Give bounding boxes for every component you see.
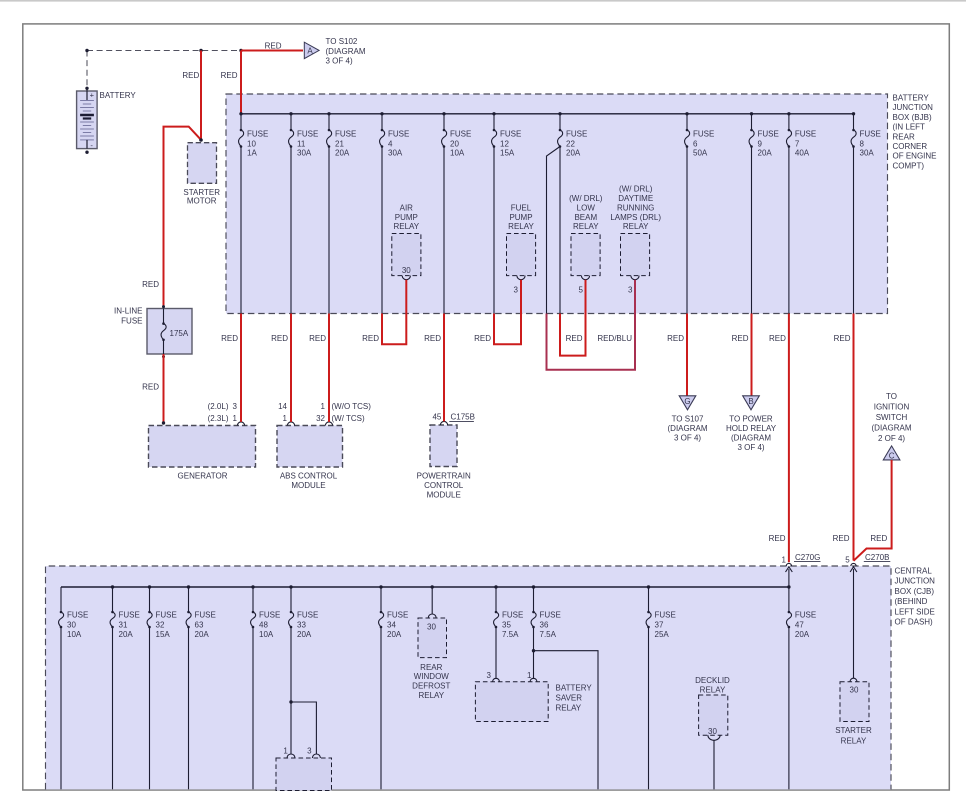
svg-text:14: 14 <box>278 402 287 411</box>
generator pin arc <box>237 422 244 426</box>
svg-text:RED: RED <box>221 71 238 80</box>
svg-text:15A: 15A <box>500 149 515 158</box>
node bus tap fuse 31 <box>111 585 114 588</box>
svg-text:7.5A: 7.5A <box>502 630 519 639</box>
wire RED fuse 12 to fuel pump relay 3 <box>494 280 521 345</box>
svg-text:37: 37 <box>655 620 664 629</box>
svg-text:POWERTRAIN: POWERTRAIN <box>417 471 471 480</box>
off-page connector A to S102 <box>304 42 319 58</box>
wire fuse 35 to battery saver relay 3 <box>495 627 497 679</box>
svg-text:RED: RED <box>732 334 749 343</box>
svg-text:1: 1 <box>527 671 532 680</box>
svg-text:CENTRAL: CENTRAL <box>895 567 933 576</box>
svg-text:RELAY: RELAY <box>700 685 726 694</box>
svg-text:G: G <box>684 397 690 406</box>
wire fuse drop <box>240 147 242 314</box>
node bus tap fuse 9 <box>750 112 753 115</box>
wire fuse drop <box>686 147 688 314</box>
fuse 21 20A <box>327 129 357 158</box>
svg-text:(DIAGRAM: (DIAGRAM <box>731 433 771 442</box>
wire fuse drop <box>252 627 254 789</box>
off-page connector B to power hold relay <box>743 396 760 410</box>
svg-text:FUSE: FUSE <box>297 130 318 139</box>
node bus tap fuse 20 <box>442 112 445 115</box>
svg-text:20A: 20A <box>297 630 312 639</box>
svg-text:TO: TO <box>886 392 897 401</box>
fuse 22 20A <box>558 129 588 158</box>
ABS pin 1/32 arc <box>325 422 332 426</box>
svg-text:48: 48 <box>259 620 268 629</box>
node bus tap fuse 11 <box>289 112 292 115</box>
svg-text:RELAY: RELAY <box>573 222 599 231</box>
svg-text:RELAY: RELAY <box>841 736 867 745</box>
svg-text:RED: RED <box>182 71 199 80</box>
svg-text:LAMPS (DRL): LAMPS (DRL) <box>610 213 661 222</box>
wire RED feed into BJB <box>240 51 242 114</box>
svg-text:COMPT): COMPT) <box>893 161 925 170</box>
wire C270G to CJB bus <box>788 569 790 587</box>
svg-text:CONTROL: CONTROL <box>424 481 464 490</box>
node bus tap fuse 8 <box>852 112 855 115</box>
node starter tap <box>199 49 202 52</box>
svg-text:BATTERY: BATTERY <box>100 91 137 100</box>
svg-text:OF DASH): OF DASH) <box>895 618 934 627</box>
svg-text:RELAY: RELAY <box>556 703 582 712</box>
svg-text:20: 20 <box>450 139 459 148</box>
svg-text:12: 12 <box>500 139 509 148</box>
svg-text:FUSE: FUSE <box>795 611 816 620</box>
svg-text:IN-LINE: IN-LINE <box>114 307 142 316</box>
svg-text:3 OF 4): 3 OF 4) <box>326 57 353 66</box>
svg-text:3: 3 <box>307 746 312 755</box>
fuse 34 20A <box>379 611 409 639</box>
svg-text:MOTOR: MOTOR <box>187 196 217 205</box>
fuse 10 1A <box>239 129 269 158</box>
svg-text:FUSE: FUSE <box>335 130 356 139</box>
wire RED fuse 22 to low beam relay 5 <box>560 280 586 356</box>
svg-text:3 OF 4): 3 OF 4) <box>674 433 701 442</box>
node bus tap fuse 21 <box>327 112 330 115</box>
svg-text:30A: 30A <box>297 149 312 158</box>
svg-text:4: 4 <box>388 139 393 148</box>
rear window defrost relay <box>431 587 433 614</box>
svg-text:30A: 30A <box>388 149 403 158</box>
svg-text:20A: 20A <box>195 630 210 639</box>
svg-text:(DIAGRAM: (DIAGRAM <box>326 47 366 56</box>
battery junction box BJB <box>226 94 888 314</box>
wire fuse drop <box>188 627 190 789</box>
svg-text:8: 8 <box>860 139 865 148</box>
svg-text:3: 3 <box>514 286 519 295</box>
svg-text:20A: 20A <box>119 630 134 639</box>
svg-text:21: 21 <box>335 139 344 148</box>
svg-text:MODULE: MODULE <box>427 491 461 500</box>
svg-text:+: + <box>90 91 95 100</box>
node bus tap fuse 6 <box>685 112 688 115</box>
node bus tap fuse 63 <box>187 585 190 588</box>
svg-text:A: A <box>307 46 313 55</box>
svg-text:34: 34 <box>387 620 396 629</box>
wire fuse 36 to battery saver relay 1 and branch <box>533 627 535 679</box>
svg-text:31: 31 <box>119 620 128 629</box>
node bus tap fuse 37 <box>647 585 650 588</box>
svg-text:C270G: C270G <box>795 553 820 562</box>
svg-text:36: 36 <box>540 620 549 629</box>
wire RED fuse 21 to ABS <box>328 314 330 422</box>
fuse 32 15A <box>147 611 177 639</box>
central junction box CJB <box>46 566 892 789</box>
fuse 33 20A <box>289 611 319 639</box>
wire dashed battery bus <box>87 50 241 52</box>
svg-text:30: 30 <box>427 623 436 632</box>
wire fuse drop <box>788 627 790 789</box>
wire RED fuse 11 to ABS <box>290 314 292 422</box>
node bus / C270G junction <box>787 585 790 588</box>
svg-text:63: 63 <box>195 620 204 629</box>
svg-text:IGNITION: IGNITION <box>874 402 910 411</box>
wire RED fuse 7 to CJB C270G <box>788 314 790 563</box>
fuse 12 15A <box>492 129 522 158</box>
svg-text:(2.3L): (2.3L) <box>208 414 229 423</box>
battery saver relay <box>475 682 548 722</box>
svg-text:BATTERY: BATTERY <box>556 683 593 692</box>
svg-text:RED: RED <box>566 334 583 343</box>
svg-text:FUSE: FUSE <box>502 611 523 620</box>
wire fuse drop <box>381 147 383 314</box>
svg-text:DECKLID: DECKLID <box>695 676 730 685</box>
svg-text:10A: 10A <box>450 149 465 158</box>
svg-text:RED: RED <box>221 334 238 343</box>
svg-text:7: 7 <box>795 139 800 148</box>
svg-text:JUNCTION: JUNCTION <box>893 103 934 112</box>
node fuse 36 branch <box>532 649 535 652</box>
svg-text:FUSE: FUSE <box>247 130 268 139</box>
svg-text:3: 3 <box>628 286 633 295</box>
wire fuse drop <box>290 147 292 314</box>
node BJB feed tap <box>239 49 242 52</box>
fuse 6 50A <box>685 129 715 158</box>
svg-text:RED: RED <box>833 534 850 543</box>
wire RED fuse 20 to PCM <box>443 314 445 422</box>
fuse 20 10A <box>442 129 472 158</box>
wire fuse 33 to relay pins <box>290 627 292 754</box>
svg-text:SAVER: SAVER <box>556 693 583 702</box>
svg-text:RED/BLU: RED/BLU <box>597 334 632 343</box>
node fuse 33 branch <box>289 700 292 703</box>
svg-text:40A: 40A <box>795 149 810 158</box>
wire RED ignition switch to C270B <box>854 460 892 561</box>
wire fuse drop <box>112 627 114 789</box>
wire RED starter tap to in-line fuse <box>164 127 202 309</box>
svg-text:RED: RED <box>667 334 684 343</box>
node generator terminal <box>162 421 165 424</box>
fuse 9 20A <box>749 129 779 158</box>
svg-text:(W/ DRL): (W/ DRL) <box>619 185 653 194</box>
node bus tap fuse 4 <box>380 112 383 115</box>
svg-text:1: 1 <box>321 402 326 411</box>
svg-text:45: 45 <box>432 413 441 422</box>
svg-text:33: 33 <box>297 620 306 629</box>
svg-text:50A: 50A <box>693 149 708 158</box>
svg-text:3 OF 4): 3 OF 4) <box>737 443 764 452</box>
node bus tap fuse 33 <box>289 585 292 588</box>
wire fuse drop <box>559 147 561 314</box>
svg-text:11: 11 <box>297 139 306 148</box>
svg-text:AIR: AIR <box>400 203 414 212</box>
svg-text:1: 1 <box>782 555 787 564</box>
svg-text:30A: 30A <box>860 149 875 158</box>
fuse 37 25A <box>646 611 676 639</box>
starter relay <box>840 682 869 722</box>
svg-text:FUSE: FUSE <box>450 130 471 139</box>
svg-text:25A: 25A <box>655 630 670 639</box>
svg-text:TO POWER: TO POWER <box>729 414 773 423</box>
svg-text:RED: RED <box>265 41 282 50</box>
wire fuse drop <box>853 147 855 314</box>
svg-text:RED: RED <box>271 334 288 343</box>
svg-text:REAR: REAR <box>893 132 915 141</box>
svg-text:CORNER: CORNER <box>893 142 928 151</box>
svg-text:RELAY: RELAY <box>623 222 649 231</box>
svg-text:LOW: LOW <box>577 203 596 212</box>
svg-text:(W/O TCS): (W/O TCS) <box>332 402 372 411</box>
svg-text:(DIAGRAM: (DIAGRAM <box>668 424 708 433</box>
wire fuse drop <box>443 147 445 314</box>
svg-text:FUSE: FUSE <box>655 611 676 620</box>
fuse 31 20A <box>110 611 140 639</box>
svg-text:BATTERY: BATTERY <box>893 94 930 103</box>
node bus tap fuse 22 <box>558 112 561 115</box>
svg-text:FUSE: FUSE <box>566 130 587 139</box>
svg-text:C270B: C270B <box>865 553 889 562</box>
node bus tap fuse 7 <box>787 112 790 115</box>
svg-text:20A: 20A <box>566 149 581 158</box>
svg-text:FUSE: FUSE <box>860 130 881 139</box>
svg-text:FUEL: FUEL <box>511 203 532 212</box>
svg-text:BOX (BJB): BOX (BJB) <box>893 113 932 122</box>
svg-text:RED: RED <box>769 534 786 543</box>
svg-text:FUSE: FUSE <box>500 130 521 139</box>
node bus tap fuse 10 <box>239 112 242 115</box>
svg-text:JUNCTION: JUNCTION <box>895 577 936 586</box>
svg-text:(DIAGRAM: (DIAGRAM <box>872 423 912 432</box>
svg-text:5: 5 <box>845 555 850 564</box>
PCM pin 45 connector C175B <box>440 421 447 425</box>
wire RED fuse 4 to air pump relay 30 <box>382 280 406 345</box>
svg-text:RED: RED <box>769 334 786 343</box>
svg-text:HOLD RELAY: HOLD RELAY <box>726 424 777 433</box>
svg-text:PUMP: PUMP <box>395 213 418 222</box>
battery B1 <box>77 87 98 154</box>
svg-text:32: 32 <box>316 414 325 423</box>
wire RED fuse 6 to S107 <box>686 314 688 396</box>
generator <box>149 426 256 468</box>
svg-text:RED: RED <box>474 334 491 343</box>
wire C270B to starter relay <box>853 569 855 679</box>
fuse 63 20A <box>186 611 216 639</box>
fuse 11 30A <box>289 129 319 158</box>
svg-text:GENERATOR: GENERATOR <box>178 471 228 480</box>
off-page connector G to S107 <box>679 396 696 410</box>
svg-text:20A: 20A <box>758 149 773 158</box>
svg-text:10: 10 <box>247 139 256 148</box>
svg-text:20A: 20A <box>335 149 350 158</box>
svg-text:FUSE: FUSE <box>67 611 88 620</box>
svg-text:(W/ DRL): (W/ DRL) <box>569 194 603 203</box>
svg-text:PUMP: PUMP <box>509 213 532 222</box>
node bus tap fuse 36 <box>532 585 535 588</box>
node bus tap defrost relay <box>431 585 434 588</box>
wire fuse drop <box>60 627 62 789</box>
svg-text:FUSE: FUSE <box>693 130 714 139</box>
svg-text:RED: RED <box>834 334 851 343</box>
svg-text:20A: 20A <box>387 630 402 639</box>
svg-text:20A: 20A <box>795 630 810 639</box>
svg-text:FUSE: FUSE <box>795 130 816 139</box>
svg-text:3: 3 <box>233 402 238 411</box>
svg-text:STARTER: STARTER <box>835 726 872 735</box>
svg-text:RUNNING: RUNNING <box>617 203 654 212</box>
fuse 35 7.5A <box>494 611 524 639</box>
svg-text:47: 47 <box>795 620 804 629</box>
svg-text:LEFT SIDE: LEFT SIDE <box>895 607 935 616</box>
svg-text:35: 35 <box>502 620 511 629</box>
wire decklid relay 30 down <box>713 740 715 789</box>
svg-text:ABS CONTROL: ABS CONTROL <box>280 471 338 480</box>
fuse 36 7.5A <box>531 611 561 639</box>
svg-text:RED: RED <box>424 334 441 343</box>
CJB bus <box>61 586 789 588</box>
node battery bus left <box>85 49 88 52</box>
svg-text:(W/ TCS): (W/ TCS) <box>332 414 366 423</box>
wire RED to S102 <box>241 50 303 52</box>
svg-text:175A: 175A <box>170 329 189 338</box>
svg-text:MODULE: MODULE <box>291 481 325 490</box>
svg-text:WINDOW: WINDOW <box>414 672 450 681</box>
svg-text:OF ENGINE: OF ENGINE <box>893 152 937 161</box>
node bus tap fuse 48 <box>251 585 254 588</box>
svg-text:32: 32 <box>156 620 165 629</box>
svg-text:1: 1 <box>233 414 238 423</box>
svg-text:RELAY: RELAY <box>418 691 444 700</box>
svg-text:FUSE: FUSE <box>156 611 177 620</box>
svg-text:3: 3 <box>487 671 492 680</box>
wire fuse drop <box>380 627 382 789</box>
BJB bus <box>241 113 854 115</box>
svg-text:C: C <box>889 451 895 460</box>
wire RED fuse 8 to CJB C270B <box>853 314 855 561</box>
svg-text:DAYTIME: DAYTIME <box>618 194 653 203</box>
svg-text:30: 30 <box>402 266 411 275</box>
wire RED fuse 9 to power hold relay <box>751 314 753 396</box>
svg-text:FUSE: FUSE <box>388 130 409 139</box>
svg-text:RED: RED <box>142 382 159 391</box>
wire fuse drop <box>149 627 151 789</box>
wire fuse 22 to DRL branch <box>547 147 561 314</box>
node starter terminal <box>199 138 203 142</box>
svg-text:RELAY: RELAY <box>393 222 419 231</box>
svg-text:1: 1 <box>283 414 288 423</box>
wire RED fuse 10 to generator <box>240 314 242 422</box>
svg-text:FUSE: FUSE <box>297 611 318 620</box>
svg-text:(BEHIND: (BEHIND <box>895 597 928 606</box>
svg-text:1: 1 <box>283 746 288 755</box>
relay (unnamed) fed by fuse 33 <box>276 758 332 791</box>
starter motor <box>188 143 217 184</box>
wire fuse drop <box>788 147 790 314</box>
svg-text:FUSE: FUSE <box>540 611 561 620</box>
svg-text:30: 30 <box>67 620 76 629</box>
svg-text:RED: RED <box>362 334 379 343</box>
wire RED battery to starter motor <box>200 51 202 141</box>
svg-text:FUSE: FUSE <box>195 611 216 620</box>
node bus tap fuse 35 <box>494 585 497 588</box>
wire fuse drop <box>751 147 753 314</box>
svg-text:FUSE: FUSE <box>758 130 779 139</box>
fuse 7 40A <box>786 129 816 158</box>
svg-text:30: 30 <box>850 686 859 695</box>
svg-text:FUSE: FUSE <box>387 611 408 620</box>
svg-text:6: 6 <box>693 139 698 148</box>
fuse 48 10A <box>251 611 281 639</box>
node bus tap fuse 12 <box>492 112 495 115</box>
wire dashed battery drop <box>86 51 88 89</box>
fuse 4 30A <box>380 129 410 158</box>
wire RED in-line fuse to generator <box>163 354 165 423</box>
svg-text:RED: RED <box>870 534 887 543</box>
wire fuse drop <box>648 627 650 789</box>
svg-text:BEAM: BEAM <box>574 213 597 222</box>
ABS control module <box>277 426 343 468</box>
svg-text:BOX (CJB): BOX (CJB) <box>895 587 935 596</box>
svg-text:2 OF 4): 2 OF 4) <box>878 434 905 443</box>
svg-text:22: 22 <box>566 139 575 148</box>
svg-text:FUSE: FUSE <box>259 611 280 620</box>
svg-text:B: B <box>748 397 753 406</box>
fuse 30 10A <box>59 611 89 639</box>
svg-text:SWITCH: SWITCH <box>876 413 908 422</box>
svg-text:RED: RED <box>309 334 326 343</box>
wire fuse drop <box>328 147 330 314</box>
svg-text:RED: RED <box>142 280 159 289</box>
svg-text:REAR: REAR <box>420 663 442 672</box>
svg-text:7.5A: 7.5A <box>540 630 557 639</box>
svg-text:FUSE: FUSE <box>119 611 140 620</box>
svg-text:FUSE: FUSE <box>121 316 142 325</box>
fuse 47 20A <box>786 611 816 639</box>
node bus tap fuse 32 <box>148 585 151 588</box>
svg-text:TO S107: TO S107 <box>672 414 704 423</box>
svg-text:9: 9 <box>758 139 763 148</box>
powertrain control module <box>430 425 457 467</box>
svg-text:10A: 10A <box>67 630 82 639</box>
svg-text:5: 5 <box>579 286 584 295</box>
svg-text:(2.0L): (2.0L) <box>208 402 229 411</box>
wire RED/BLU fuse 22 to DRL relay 3 <box>547 280 636 370</box>
svg-text:10A: 10A <box>259 630 274 639</box>
svg-text:1A: 1A <box>247 149 257 158</box>
svg-text:RELAY: RELAY <box>508 222 534 231</box>
svg-text:TO S102: TO S102 <box>326 37 358 46</box>
node bus tap fuse 34 <box>379 585 382 588</box>
wire fuse drop <box>493 147 495 314</box>
svg-text:C175B: C175B <box>451 413 475 422</box>
fuse 8 30A <box>851 129 881 158</box>
svg-text:(IN LEFT: (IN LEFT <box>893 123 926 132</box>
ABS pin 14/1 arc <box>287 422 294 426</box>
svg-text:DEFROST: DEFROST <box>412 682 450 691</box>
svg-text:30: 30 <box>708 727 717 736</box>
